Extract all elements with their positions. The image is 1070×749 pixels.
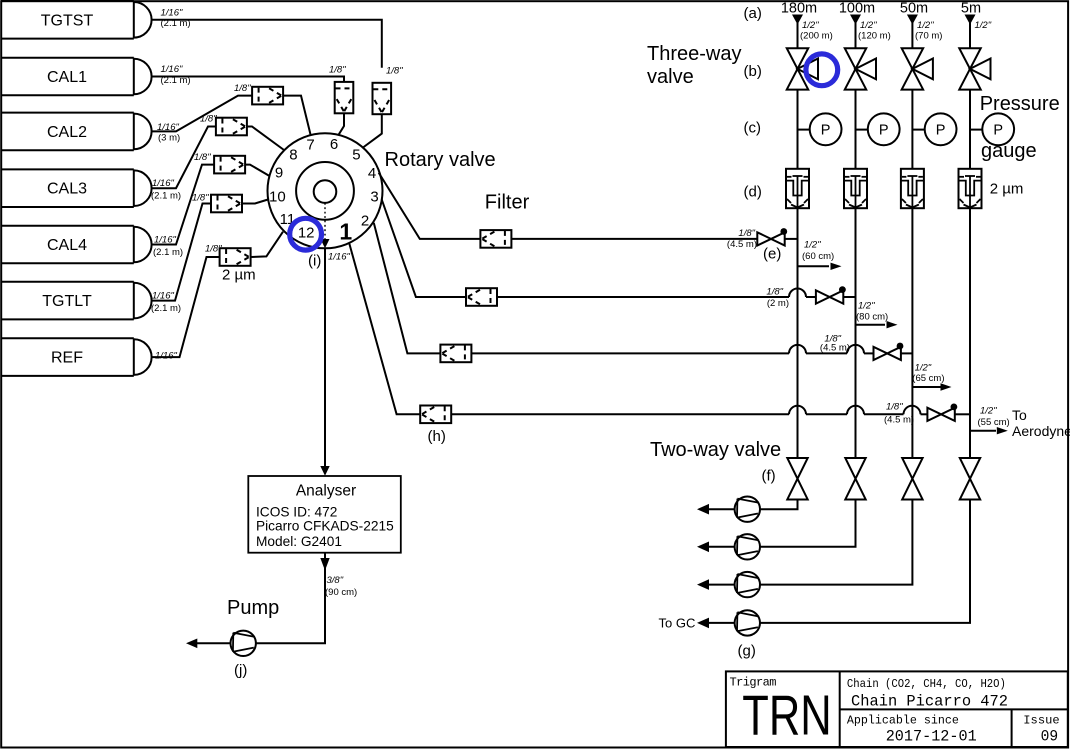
svg-text:180m: 180m bbox=[781, 1, 817, 17]
2um filter 180m bbox=[786, 169, 809, 208]
rotary valve outlet arrowhead bbox=[321, 239, 330, 248]
svg-text:(4.5 m): (4.5 m) bbox=[884, 415, 914, 426]
pressure gauge 100m bbox=[868, 113, 900, 145]
svg-text:(60 cm): (60 cm) bbox=[802, 251, 834, 262]
svg-text:(b): (b) bbox=[744, 63, 762, 80]
svg-text:Aerodyne: Aerodyne bbox=[1012, 423, 1070, 439]
svg-text:(2 m): (2 m) bbox=[767, 298, 789, 309]
three-way valve 50m bbox=[902, 48, 933, 89]
wire CAL3 to its filter bbox=[152, 127, 216, 189]
svg-text:2 µm: 2 µm bbox=[990, 181, 1024, 198]
source box CAL4 bbox=[1, 226, 152, 264]
svg-text:1/8": 1/8" bbox=[738, 228, 755, 239]
svg-text:Filter: Filter bbox=[485, 192, 530, 214]
svg-text:1/8": 1/8" bbox=[234, 83, 251, 94]
wire port4 to row1 bbox=[379, 173, 758, 239]
svg-text:(2.1 m): (2.1 m) bbox=[161, 18, 191, 29]
svg-text:1/2": 1/2" bbox=[802, 20, 819, 31]
arrowhead below analyser bbox=[320, 558, 329, 571]
filter on CAL2 line bbox=[252, 87, 283, 105]
svg-text:50m: 50m bbox=[900, 1, 928, 17]
wire CAL1 filter to port 6 bbox=[338, 113, 344, 135]
filter on TGTLT line bbox=[211, 195, 242, 213]
exhaust arrow left bbox=[197, 642, 231, 644]
svg-text:1/16": 1/16" bbox=[152, 178, 174, 189]
svg-text:valve: valve bbox=[647, 66, 694, 88]
needle valve row1 bbox=[757, 228, 787, 245]
svg-text:(a): (a) bbox=[744, 5, 762, 22]
svg-text:Rotary valve: Rotary valve bbox=[385, 149, 496, 171]
svg-text:TGTST: TGTST bbox=[41, 12, 94, 29]
wire row3 continue bbox=[471, 352, 789, 354]
svg-text:12: 12 bbox=[298, 225, 315, 242]
svg-text:(c): (c) bbox=[744, 120, 762, 137]
svg-text:Pressure: Pressure bbox=[980, 93, 1060, 115]
needle valve row3 bbox=[789, 345, 806, 354]
svg-text:(4.5 m): (4.5 m) bbox=[820, 343, 850, 354]
svg-text:7: 7 bbox=[306, 136, 314, 153]
three-way valve 180m bbox=[787, 48, 818, 89]
svg-text:TRN: TRN bbox=[742, 684, 831, 748]
pump row4 To GC bbox=[735, 610, 760, 635]
filter on row4 bbox=[420, 406, 451, 424]
svg-text:Model: G2401: Model: G2401 bbox=[256, 534, 342, 549]
svg-text:5m: 5m bbox=[961, 1, 981, 17]
arrowhead into analyser bbox=[320, 466, 329, 476]
wire bbox=[797, 208, 799, 458]
svg-text:10: 10 bbox=[269, 189, 286, 206]
filter on row2 bbox=[466, 288, 497, 306]
svg-text:2017-12-01: 2017-12-01 bbox=[886, 727, 977, 745]
svg-text:CAL3: CAL3 bbox=[47, 181, 87, 198]
outlet arrow row4 to Aerodyne bbox=[970, 430, 996, 432]
svg-text:5: 5 bbox=[352, 147, 360, 164]
two-way valve 100m bbox=[845, 458, 865, 500]
svg-text:TGTLT: TGTLT bbox=[42, 293, 92, 310]
svg-text:1/8": 1/8" bbox=[205, 244, 222, 255]
svg-text:Pump: Pump bbox=[227, 597, 279, 619]
svg-text:Analyser: Analyser bbox=[296, 483, 356, 500]
svg-text:1/16": 1/16" bbox=[328, 252, 350, 263]
three-way valve 5m bbox=[959, 48, 990, 89]
svg-text:8: 8 bbox=[289, 147, 297, 164]
svg-text:CAL4: CAL4 bbox=[47, 237, 87, 254]
svg-text:(3 m): (3 m) bbox=[158, 132, 180, 143]
pump row3 bbox=[735, 572, 760, 597]
svg-text:Three-way: Three-way bbox=[647, 43, 741, 65]
wire CAL1 to port6 filter bbox=[152, 77, 344, 83]
svg-text:1/16": 1/16" bbox=[152, 291, 174, 302]
pump row2 bbox=[735, 534, 760, 559]
2um filter 5m bbox=[959, 169, 982, 208]
wire rotary to analyser bbox=[324, 248, 326, 467]
svg-text:Issue: Issue bbox=[1023, 713, 1059, 727]
svg-text:To: To bbox=[1012, 407, 1027, 423]
three-way valve 100m bbox=[845, 48, 876, 89]
wire port1 to row4 bbox=[349, 244, 420, 415]
svg-text:1/8": 1/8" bbox=[886, 402, 903, 413]
wire TGTST to port5 filter bbox=[152, 20, 382, 68]
100m column bbox=[760, 1, 899, 547]
svg-text:1/8": 1/8" bbox=[192, 193, 209, 204]
two-way valve 5m bbox=[960, 458, 980, 500]
svg-text:1/8": 1/8" bbox=[194, 152, 211, 163]
svg-text:1/2": 1/2" bbox=[980, 406, 997, 417]
svg-text:9: 9 bbox=[275, 164, 283, 181]
svg-text:3/8": 3/8" bbox=[327, 575, 344, 586]
rotary valve inner circle bbox=[314, 180, 337, 203]
svg-text:Picarro CFKADS-2215: Picarro CFKADS-2215 bbox=[256, 519, 394, 534]
svg-text:(70 m): (70 m) bbox=[915, 31, 942, 42]
source box REF bbox=[1, 338, 152, 376]
svg-text:1/2": 1/2" bbox=[858, 300, 875, 311]
svg-text:1/16": 1/16" bbox=[154, 235, 176, 246]
wire analyser to pump bbox=[256, 553, 325, 644]
pump row1 bbox=[735, 497, 760, 522]
svg-text:(e): (e) bbox=[763, 246, 781, 263]
svg-text:CAL1: CAL1 bbox=[47, 69, 87, 86]
svg-text:Chain (CO2, CH4, CO, H2O): Chain (CO2, CH4, CO, H2O) bbox=[847, 677, 1006, 691]
svg-text:1/16": 1/16" bbox=[155, 351, 177, 362]
wire CAL4 to its filter bbox=[152, 165, 215, 245]
source box CAL2 bbox=[1, 113, 152, 151]
svg-text:Two-way valve: Two-way valve bbox=[650, 439, 781, 461]
svg-text:ICOS ID: 472: ICOS ID: 472 bbox=[256, 505, 337, 520]
svg-text:CAL2: CAL2 bbox=[47, 124, 87, 141]
source box TGTST bbox=[1, 1, 152, 39]
blue highlight ring bbox=[806, 54, 838, 86]
needle valve row2 bbox=[789, 289, 806, 298]
wire bbox=[797, 90, 799, 169]
rotary valve middle circle bbox=[296, 162, 354, 220]
svg-text:REF: REF bbox=[51, 350, 83, 367]
svg-text:1/2": 1/2" bbox=[917, 20, 934, 31]
svg-text:(4.5 m): (4.5 m) bbox=[727, 239, 757, 250]
svg-text:1/2": 1/2" bbox=[804, 240, 821, 251]
svg-text:(2.1 m): (2.1 m) bbox=[153, 247, 183, 258]
gauge stub bbox=[798, 129, 812, 131]
svg-text:(2.1 m): (2.1 m) bbox=[151, 191, 181, 202]
pressure gauge 50m bbox=[925, 113, 957, 145]
source box TGTLT bbox=[1, 282, 152, 320]
filter on row1 bbox=[480, 230, 511, 248]
wire CAL2 filter to port 7 bbox=[283, 96, 310, 135]
wire row4 continue bbox=[451, 413, 789, 415]
svg-text:09: 09 bbox=[1041, 728, 1059, 746]
svg-text:(2.1 m): (2.1 m) bbox=[151, 303, 181, 314]
svg-text:1: 1 bbox=[339, 219, 352, 245]
wire TGTST filter to port 5 bbox=[363, 114, 382, 147]
50m column bbox=[760, 1, 956, 585]
outlet arrow row2 bbox=[856, 324, 886, 326]
two-way valve 180m bbox=[787, 458, 807, 500]
svg-text:(65 cm): (65 cm) bbox=[912, 373, 944, 384]
wire CAL4 filter to port 9 bbox=[245, 165, 270, 176]
svg-text:1/16": 1/16" bbox=[161, 7, 183, 18]
wire CAL2 to its filter bbox=[152, 96, 253, 132]
svg-text:(g): (g) bbox=[738, 643, 756, 660]
source box CAL1 bbox=[1, 58, 152, 96]
svg-text:(55 cm): (55 cm) bbox=[978, 417, 1010, 428]
wire bbox=[797, 22, 799, 48]
svg-text:Applicable since: Applicable since bbox=[847, 713, 959, 727]
svg-text:1/8": 1/8" bbox=[200, 114, 217, 125]
svg-text:(d): (d) bbox=[744, 184, 762, 201]
svg-text:(j): (j) bbox=[234, 662, 247, 679]
wire port2 to row3 bbox=[374, 223, 441, 354]
analyser box bbox=[248, 476, 400, 553]
vertical filter on TGTST line (port 5) bbox=[373, 83, 392, 114]
svg-text:1/2": 1/2" bbox=[975, 20, 992, 31]
svg-text:(90 cm): (90 cm) bbox=[325, 587, 357, 598]
svg-text:3: 3 bbox=[370, 188, 378, 205]
svg-text:(200 m): (200 m) bbox=[800, 31, 833, 42]
wire port3 to row2 bbox=[382, 199, 466, 297]
svg-text:(2.1 m): (2.1 m) bbox=[161, 75, 191, 86]
filter 2um on REF line bbox=[220, 248, 251, 266]
svg-text:2 µm: 2 µm bbox=[222, 267, 256, 284]
pressure gauge 180m bbox=[810, 113, 842, 145]
wire TGTLT to its filter bbox=[152, 204, 211, 301]
wire REF filter to port 11 bbox=[251, 232, 283, 257]
svg-text:1/8": 1/8" bbox=[329, 65, 346, 76]
outlet arrow row1 bbox=[798, 265, 830, 267]
svg-text:6: 6 bbox=[330, 136, 338, 153]
svg-text:Chain Picarro 472: Chain Picarro 472 bbox=[851, 692, 1008, 710]
svg-text:1/8": 1/8" bbox=[766, 287, 783, 298]
two-way valve 50m bbox=[902, 458, 922, 500]
svg-text:(80 cm): (80 cm) bbox=[856, 312, 888, 323]
wire REF to its filter bbox=[152, 257, 220, 357]
wire to pump row1 bbox=[760, 500, 797, 510]
svg-text:(h): (h) bbox=[428, 428, 446, 445]
filter on CAL3 line bbox=[216, 118, 247, 136]
svg-text:(i): (i) bbox=[308, 253, 321, 270]
svg-text:(120 m): (120 m) bbox=[858, 31, 891, 42]
svg-text:(f): (f) bbox=[762, 468, 776, 485]
wire CAL3 filter to port 8 bbox=[247, 127, 284, 151]
vertical filter on CAL1 line (port 6) bbox=[335, 82, 354, 113]
pump (j) bbox=[231, 631, 256, 656]
rotary valve dotted outlet line bbox=[324, 203, 326, 239]
rotary valve outer circle bbox=[268, 133, 383, 248]
svg-text:To GC: To GC bbox=[659, 616, 696, 631]
filter on CAL4 line bbox=[214, 156, 245, 174]
blue highlight ring on port 12 bbox=[290, 218, 322, 250]
needle valve row4 bbox=[789, 406, 806, 415]
wire row2 continue bbox=[497, 296, 789, 298]
svg-text:1/2": 1/2" bbox=[860, 20, 877, 31]
svg-text:100m: 100m bbox=[839, 1, 875, 17]
2um filter 50m bbox=[901, 169, 924, 208]
outlet arrow row3 bbox=[912, 386, 941, 388]
wire TGTLT filter to port 10 bbox=[242, 200, 268, 204]
filter on row3 bbox=[440, 345, 471, 363]
pressure gauge 5m bbox=[982, 113, 1014, 145]
180m column bbox=[760, 1, 841, 510]
source box CAL3 bbox=[1, 169, 152, 207]
svg-text:1/16": 1/16" bbox=[161, 64, 183, 75]
svg-text:1/8": 1/8" bbox=[386, 66, 403, 77]
2um filter 100m bbox=[844, 169, 867, 208]
svg-text:2: 2 bbox=[361, 212, 369, 229]
svg-text:4: 4 bbox=[368, 165, 376, 182]
5m column bbox=[760, 1, 1014, 623]
